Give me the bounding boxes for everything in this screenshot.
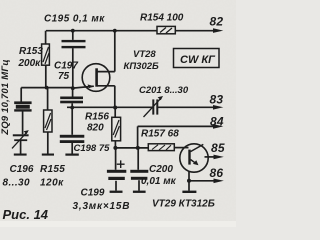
capacitor C196 plates (trimmer) xyxy=(13,134,29,141)
svg-text:200к: 200к xyxy=(18,58,42,69)
svg-text:86: 86 xyxy=(210,166,224,180)
svg-text:0,01 мк: 0,01 мк xyxy=(141,176,177,187)
wire C197 top lead xyxy=(72,88,74,96)
wire VT28 source lead xyxy=(97,86,114,108)
ground bar under C198 xyxy=(65,154,78,156)
svg-text:120к: 120к xyxy=(40,178,64,189)
paper background xyxy=(0,0,236,227)
terminal arrow 85 xyxy=(214,155,224,160)
svg-text:3,3мк×15В: 3,3мк×15В xyxy=(73,201,131,212)
wire C198 bottom lead xyxy=(71,143,73,154)
terminal arrow 84 xyxy=(213,124,223,129)
svg-text:820: 820 xyxy=(87,123,104,134)
resistor R157 body xyxy=(148,144,174,151)
wire crystal top lead xyxy=(20,88,22,102)
capacitor C195 plates xyxy=(62,40,86,48)
svg-text:Рис. 14: Рис. 14 xyxy=(3,207,49,222)
box CW KG mode label xyxy=(174,49,220,68)
svg-text:КП302Б: КП302Б xyxy=(124,61,160,72)
ground bar under C200 xyxy=(133,191,146,193)
capacitor C200 plates xyxy=(130,170,148,180)
wire gate lead of VT28 xyxy=(73,86,94,88)
capacitor C197 plates xyxy=(60,97,83,104)
terminal arrow 86 xyxy=(214,179,224,184)
svg-text:C199: C199 xyxy=(81,188,105,199)
wire C195 top lead xyxy=(72,31,74,40)
wire C200 bottom lead xyxy=(138,180,140,190)
svg-text:VT28: VT28 xyxy=(133,49,156,60)
wire gate bus (crystal / R153 / C195 / gate node) xyxy=(21,87,73,89)
wire C197 bottom lead xyxy=(71,103,73,107)
svg-text:C196: C196 xyxy=(10,164,34,175)
C201 trimmer arrow xyxy=(144,96,164,117)
wire 83 line through C201 xyxy=(67,106,218,108)
wire R155 bottom lead xyxy=(47,132,49,154)
svg-text:84: 84 xyxy=(210,115,224,129)
wire C198 top lead xyxy=(71,108,73,135)
terminal arrow 82 xyxy=(213,28,223,33)
wire R157 right lead to VT29 base xyxy=(175,147,189,149)
emitter diagonal with arrow xyxy=(191,160,197,164)
ground bar under R155 xyxy=(42,154,54,156)
resistor R155 body xyxy=(44,110,52,132)
wire emitter node to ground xyxy=(188,181,190,191)
wire emitter node to terminal 86 xyxy=(189,180,218,182)
capacitor C198 plates xyxy=(60,135,85,143)
wire R153 bottom lead xyxy=(45,65,47,87)
junction node emitter/86 xyxy=(187,179,191,183)
svg-text:R153: R153 xyxy=(19,46,43,57)
svg-text:85: 85 xyxy=(211,141,225,155)
collector diagonal xyxy=(191,144,204,151)
junction node on top rail at C195 xyxy=(71,29,75,33)
svg-text:C198 75: C198 75 xyxy=(74,143,111,154)
svg-text:R154 100: R154 100 xyxy=(140,13,184,24)
wire C196 bottom lead xyxy=(20,141,22,154)
ground bar under C199 xyxy=(110,191,123,193)
wire R155 top lead xyxy=(47,88,49,110)
junction node on top rail at drain xyxy=(113,29,117,33)
wire crystal to C196 xyxy=(22,111,24,134)
ground bar under C196 xyxy=(14,154,27,156)
wire source node to R156 xyxy=(114,108,116,118)
junction node source on 83 line xyxy=(113,106,117,110)
svg-text:C201 8...30: C201 8...30 xyxy=(139,85,189,96)
ground bar under VT29 emitter xyxy=(182,191,196,193)
wire top rail (to terminal 82) xyxy=(46,30,218,32)
capacitor C201 plates (trimmer) xyxy=(152,99,158,114)
transistor VT28 (JFET) xyxy=(82,64,110,92)
transistor VT29 (BJT) xyxy=(180,144,208,172)
wire VT29 emitter bottom lead xyxy=(188,171,190,181)
junction node gate/C195/C197 xyxy=(71,86,75,90)
wire R153 top lead xyxy=(45,31,47,44)
svg-text:C197: C197 xyxy=(54,61,78,72)
wire C195 bottom lead to gate node xyxy=(72,48,74,88)
C196 trimmer arrow xyxy=(12,130,29,148)
C199 plus sign xyxy=(117,160,125,168)
resistor R153 body xyxy=(42,44,50,65)
wire branch to terminal 84 xyxy=(138,126,218,147)
svg-text:82: 82 xyxy=(210,15,224,29)
svg-text:R156: R156 xyxy=(85,112,109,123)
svg-text:VT29 КТ312Б: VT29 КТ312Б xyxy=(152,199,215,210)
svg-text:R157 68: R157 68 xyxy=(141,129,179,140)
svg-text:8...30: 8...30 xyxy=(3,178,30,189)
crystal ZQ9 xyxy=(14,101,31,111)
resistor R156 body xyxy=(112,117,121,141)
svg-text:R155: R155 xyxy=(40,164,65,175)
capacitor C199 plates (electrolytic) xyxy=(107,170,126,180)
svg-text:CW КГ: CW КГ xyxy=(180,54,216,66)
junction node 84-branch/C200 xyxy=(136,146,140,150)
junction node R156/C199 xyxy=(113,146,117,150)
wire VT28 drain lead xyxy=(97,31,114,72)
svg-text:C200: C200 xyxy=(149,164,173,175)
svg-text:83: 83 xyxy=(210,93,224,107)
junction node R153/R155 on gate bus xyxy=(45,86,49,90)
wire VT29 collector to terminal 85 xyxy=(205,156,219,158)
wire C199 bottom lead xyxy=(115,181,117,191)
wire R156 bottom lead xyxy=(114,141,116,148)
wire C200 top lead xyxy=(137,148,139,170)
resistor R154 body xyxy=(157,26,175,33)
svg-text:ZQ9 10,701 МГц: ZQ9 10,701 МГц xyxy=(0,59,11,136)
terminal arrow 83 xyxy=(213,105,223,110)
wire R156 node to R157 node xyxy=(115,147,148,149)
junction node C197/C198 on 83 line xyxy=(70,106,74,110)
svg-text:75: 75 xyxy=(58,71,70,82)
wire C199 top lead xyxy=(115,148,117,170)
svg-text:C195 0,1 мк: C195 0,1 мк xyxy=(44,14,105,25)
